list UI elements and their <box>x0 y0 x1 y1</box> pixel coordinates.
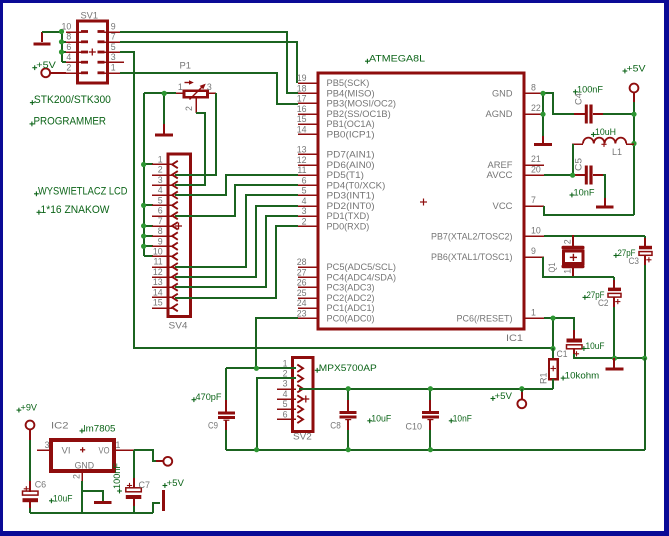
wire SV4 gnd column <box>144 93 153 256</box>
resistor R1 10kohm <box>539 348 600 389</box>
svg-text:13: 13 <box>153 277 163 287</box>
svg-text:PB6(XTAL1/TOSC1): PB6(XTAL1/TOSC1) <box>431 252 513 262</box>
capacitor C7 100nF <box>126 450 150 513</box>
label 100nF (C7, rotated) <box>112 463 123 494</box>
svg-text:10nF: 10nF <box>574 188 595 199</box>
svg-text:12: 12 <box>153 267 163 277</box>
wire PC6 reset node <box>544 318 574 348</box>
svg-text:SV4: SV4 <box>169 320 188 331</box>
label PROGRAMMER <box>30 115 107 127</box>
wire P1 pin1 to gnd net <box>144 93 176 124</box>
svg-text:MPX5700AP: MPX5700AP <box>319 363 377 374</box>
svg-text:PD4(T0/XCK): PD4(T0/XCK) <box>327 180 386 190</box>
svg-text:7: 7 <box>111 32 116 42</box>
svg-text:8: 8 <box>531 83 536 93</box>
svg-text:6: 6 <box>158 206 163 216</box>
svg-text:1: 1 <box>283 358 288 368</box>
junction dot AVCC <box>570 173 575 178</box>
wire RESET (SV1-5 long route) <box>120 52 553 348</box>
svg-text:10uH: 10uH <box>595 127 616 138</box>
svg-text:6: 6 <box>283 409 288 419</box>
junction dots SV4 gnd <box>141 162 146 249</box>
svg-text:GND: GND <box>75 460 95 471</box>
wire PC0 to SV2 pin1 <box>256 318 298 368</box>
+9V supply symbol <box>17 403 38 430</box>
svg-text:14: 14 <box>153 287 163 297</box>
wire C3 down to gnd node <box>644 255 646 358</box>
ground (P1) <box>155 124 173 137</box>
crystal Q1 <box>547 235 585 278</box>
svg-text:2: 2 <box>302 216 307 226</box>
junction dots SV1 gnd <box>59 29 64 55</box>
svg-text:PD0(RXD): PD0(RXD) <box>327 221 370 231</box>
wire gnd bus <box>226 449 645 451</box>
wire ground to SV1 left column <box>42 31 62 33</box>
svg-text:1: 1 <box>158 155 163 165</box>
svg-text:+5V: +5V <box>36 60 56 71</box>
svg-text:5: 5 <box>283 399 288 409</box>
svg-text:13: 13 <box>297 145 307 155</box>
svg-text:15: 15 <box>153 298 163 308</box>
svg-text:24: 24 <box>297 298 307 308</box>
svg-text:C3: C3 <box>629 256 640 267</box>
svg-text:PC3(ADC3): PC3(ADC3) <box>327 283 375 293</box>
wire PB7 to crystal/C3 <box>544 236 645 246</box>
svg-text:100nF: 100nF <box>577 84 603 95</box>
wire SV4-13 to PD1 <box>175 216 298 287</box>
+5V supply symbol (7805 out) <box>163 457 185 489</box>
svg-text:C2: C2 <box>598 298 609 309</box>
svg-text:4: 4 <box>302 196 307 206</box>
wire MOSI (SV1-1 to PB3) <box>120 73 298 104</box>
svg-text:15: 15 <box>297 114 307 124</box>
svg-text:Q1: Q1 <box>547 263 558 273</box>
wire VO to +5V <box>134 450 163 461</box>
svg-text:PB3(MOSI/OC2): PB3(MOSI/OC2) <box>327 99 397 109</box>
svg-text:1: 1 <box>116 440 121 450</box>
label STK200/STK300 <box>30 94 111 106</box>
svg-text:PD7(AIN1): PD7(AIN1) <box>327 150 375 160</box>
svg-text:3: 3 <box>207 82 212 92</box>
+5V supply symbol (SV1 pin2) <box>32 60 66 77</box>
svg-text:23: 23 <box>297 308 307 318</box>
wire SV4-11 to PD3 <box>175 195 298 267</box>
wire SV1 left gnd column <box>62 32 66 62</box>
wire gnd bus right leg <box>644 358 646 450</box>
capacitor C1 10uF <box>557 339 605 361</box>
wire P1 wiper to SV4 pin3 <box>175 113 205 185</box>
svg-text:6: 6 <box>302 175 307 185</box>
wire SV4-4 to PD5 <box>175 175 298 195</box>
svg-text:3: 3 <box>45 440 50 450</box>
wire C5 to ground <box>593 175 605 198</box>
svg-text:5: 5 <box>158 195 163 205</box>
svg-text:PB0(ICP1): PB0(ICP1) <box>327 129 375 139</box>
ground (7805 output, rotated) <box>162 490 165 511</box>
svg-text:C7: C7 <box>139 480 151 491</box>
+5V supply symbol (rail) <box>491 389 527 408</box>
ground (IC1 GND/AGND) <box>534 136 552 146</box>
svg-text:+5V: +5V <box>627 64 647 75</box>
svg-text:9: 9 <box>158 236 163 246</box>
svg-text:PB1(OC1A): PB1(OC1A) <box>327 119 375 129</box>
wire +5V rail (SV2 pin3 to R1) <box>299 388 553 390</box>
wire +5V node down to VCC route <box>544 114 634 215</box>
wire to rotated ground (7805) <box>153 503 160 513</box>
svg-text:10: 10 <box>62 21 72 31</box>
svg-text:2: 2 <box>66 63 71 73</box>
+5V supply symbol (top right) <box>623 64 647 115</box>
svg-text:10nF: 10nF <box>453 413 472 424</box>
wire C1 to gnd node <box>574 349 645 358</box>
svg-text:4: 4 <box>66 52 71 62</box>
svg-text:100nF: 100nF <box>112 463 123 489</box>
wire PB6 to crystal/C2 <box>543 257 614 288</box>
svg-text:PROGRAMMER: PROGRAMMER <box>34 115 107 127</box>
svg-text:+5V: +5V <box>495 391 513 402</box>
svg-text:18: 18 <box>297 83 307 93</box>
svg-text:4: 4 <box>283 389 288 399</box>
svg-text:PD2(INT0): PD2(INT0) <box>327 201 375 211</box>
svg-text:17: 17 <box>297 94 307 104</box>
svg-text:C9: C9 <box>208 420 218 431</box>
inductor L1 10uH <box>572 127 634 158</box>
svg-text:P1: P1 <box>180 60 192 71</box>
svg-text:16: 16 <box>297 104 307 114</box>
svg-text:5: 5 <box>111 42 116 52</box>
svg-text:C5: C5 <box>574 158 585 171</box>
wire SV4-6 to PD4 <box>175 185 298 216</box>
junction dots +5V rail <box>346 386 525 391</box>
svg-text:+5V: +5V <box>167 478 185 489</box>
svg-text:PC2(ADC2): PC2(ADC2) <box>327 293 375 303</box>
wire SV2 pin1 net <box>226 367 296 369</box>
svg-text:PC4(ADC4/SDA): PC4(ADC4/SDA) <box>327 272 397 282</box>
voltage regulator IC2 lm7805 <box>37 421 134 482</box>
svg-text:3: 3 <box>302 206 307 216</box>
svg-text:L1: L1 <box>612 147 622 158</box>
svg-text:PB2(SS/OC1B): PB2(SS/OC1B) <box>327 109 391 119</box>
junction dot SV2 pin1 <box>254 366 259 371</box>
svg-text:28: 28 <box>297 257 307 267</box>
capacitor C6 10uF <box>23 480 73 513</box>
svg-text:WYSWIETLACZ LCD: WYSWIETLACZ LCD <box>38 185 128 197</box>
junction dots gnd bus <box>254 447 433 452</box>
connector SV1 <box>62 10 124 83</box>
svg-text:PB7(XTAL2/TOSC2): PB7(XTAL2/TOSC2) <box>431 232 513 242</box>
svg-text:IC1: IC1 <box>506 333 523 344</box>
wire bottom rail (7805) <box>30 512 153 514</box>
ground (IC2) <box>94 501 112 504</box>
capacitor C4 100nF <box>573 84 603 123</box>
svg-text:1: 1 <box>563 269 573 274</box>
svg-text:PD5(T1): PD5(T1) <box>327 170 364 180</box>
label MPX5700AP <box>315 363 377 374</box>
svg-text:9: 9 <box>111 21 116 31</box>
svg-text:AGND: AGND <box>486 109 513 119</box>
svg-text:VI: VI <box>62 446 71 457</box>
svg-text:10: 10 <box>153 246 163 256</box>
svg-text:PC0(ADC0): PC0(ADC0) <box>327 313 375 323</box>
svg-text:470pF: 470pF <box>196 392 222 403</box>
potentiometer P1 <box>176 60 216 113</box>
svg-text:+9V: +9V <box>21 403 38 414</box>
svg-text:3: 3 <box>111 52 116 62</box>
capacitor C2 27pF <box>583 288 622 309</box>
wire SV4-14 to PD0 <box>175 226 298 298</box>
svg-text:9: 9 <box>531 246 536 256</box>
IC1 left pins <box>297 73 396 323</box>
svg-text:21: 21 <box>531 154 541 164</box>
svg-text:GND: GND <box>492 88 513 98</box>
svg-text:11: 11 <box>154 257 163 267</box>
svg-text:R1: R1 <box>539 373 550 385</box>
svg-text:3: 3 <box>158 175 163 185</box>
svg-text:1: 1 <box>111 63 116 73</box>
svg-text:2: 2 <box>563 239 573 244</box>
junction dot P1 pin1 <box>162 91 167 96</box>
wire P1 pin3 to SV4 pin2 <box>175 93 216 175</box>
svg-text:PC6(/RESET): PC6(/RESET) <box>457 313 513 323</box>
capacitor C5 10nF <box>570 158 595 199</box>
svg-text:1: 1 <box>531 307 536 317</box>
svg-text:10uF: 10uF <box>586 341 605 352</box>
junction dot PC6 <box>550 316 555 321</box>
svg-text:lm7805: lm7805 <box>84 423 116 434</box>
svg-text:C10: C10 <box>406 421 423 432</box>
svg-text:VO: VO <box>99 446 110 457</box>
wire SV4-12 to PD2 <box>175 206 298 277</box>
wire L1 left to AVCC <box>544 144 585 175</box>
IC1 right pins <box>431 83 544 324</box>
svg-text:STK200/STK300: STK200/STK300 <box>34 94 111 106</box>
svg-text:27: 27 <box>297 267 307 277</box>
connector SV2 <box>277 358 313 443</box>
svg-text:PB4(MISO): PB4(MISO) <box>327 88 375 98</box>
junction dots +5V node <box>631 112 636 146</box>
svg-text:10uF: 10uF <box>53 493 73 504</box>
wire GND+AGND to ground <box>543 93 585 136</box>
svg-text:AREF: AREF <box>488 160 513 170</box>
label WYSWIETLACZ LCD <box>34 185 128 197</box>
wire +9V to VI and C6 <box>29 429 31 492</box>
capacitor C9 470pF <box>192 368 235 450</box>
svg-text:10uF: 10uF <box>371 413 391 424</box>
svg-text:PD1(TXD): PD1(TXD) <box>327 211 370 221</box>
svg-text:PD3(INT1): PD3(INT1) <box>327 191 375 201</box>
svg-text:IC2: IC2 <box>51 421 69 432</box>
svg-text:ATMEGA8L: ATMEGA8L <box>369 54 425 65</box>
svg-text:20: 20 <box>531 164 541 174</box>
wire MISO (SV1-9 to PB4) <box>120 32 298 93</box>
wire SV2 pin2 to gnd bus <box>257 378 296 450</box>
capacitor C8 10uF <box>330 389 391 450</box>
svg-text:VCC: VCC <box>493 201 513 211</box>
svg-text:PC1(ADC1): PC1(ADC1) <box>327 303 375 313</box>
svg-text:7: 7 <box>531 195 536 205</box>
IC U1 ATmega8L IC1 body <box>318 54 524 344</box>
svg-text:2: 2 <box>72 474 82 479</box>
svg-text:PB5(SCK): PB5(SCK) <box>327 78 370 88</box>
svg-text:C8: C8 <box>330 420 341 431</box>
ground (C1/C2/C3) <box>606 358 624 371</box>
svg-text:2: 2 <box>184 106 194 111</box>
svg-text:PD6(AIN0): PD6(AIN0) <box>327 160 375 170</box>
svg-text:10kohm: 10kohm <box>565 371 600 382</box>
capacitor C3 27pF <box>614 246 653 267</box>
svg-text:19: 19 <box>297 73 307 83</box>
svg-text:SV2: SV2 <box>293 432 312 443</box>
ground (C5) <box>596 198 614 209</box>
connector SV4 <box>152 154 191 331</box>
svg-text:14: 14 <box>297 124 307 134</box>
svg-text:11: 11 <box>297 165 306 175</box>
label 1*16 ZNAKOW <box>37 204 111 216</box>
svg-text:C6: C6 <box>35 480 47 491</box>
junction dots GND/AGND <box>540 91 545 117</box>
ground (SV1) <box>33 32 50 46</box>
wire IC2 gnd pin <box>82 481 103 513</box>
svg-text:12: 12 <box>297 155 307 165</box>
wire C4 to +5V node <box>593 113 634 115</box>
svg-text:SV1: SV1 <box>81 10 99 21</box>
svg-text:AVCC: AVCC <box>487 170 513 180</box>
svg-text:26: 26 <box>297 278 307 288</box>
svg-text:4: 4 <box>158 185 163 195</box>
wire SCK (SV1-7 to PB5) <box>120 42 297 83</box>
wire C2 down to gnd node <box>613 297 615 358</box>
svg-text:1*16 ZNAKOW: 1*16 ZNAKOW <box>41 204 111 216</box>
svg-text:7: 7 <box>158 216 163 226</box>
svg-text:8: 8 <box>158 226 163 236</box>
svg-text:10: 10 <box>531 226 541 236</box>
svg-text:22: 22 <box>531 103 541 113</box>
svg-text:3: 3 <box>283 379 288 389</box>
svg-text:1: 1 <box>178 82 183 92</box>
svg-text:8: 8 <box>66 32 71 42</box>
junction dots gnd node <box>550 346 647 361</box>
svg-text:5: 5 <box>302 186 307 196</box>
svg-text:25: 25 <box>297 288 307 298</box>
svg-text:PC5(ADC5/SCL): PC5(ADC5/SCL) <box>327 262 397 272</box>
svg-text:6: 6 <box>66 42 71 52</box>
svg-text:2: 2 <box>158 165 163 175</box>
capacitor C10 10nF <box>406 389 472 450</box>
